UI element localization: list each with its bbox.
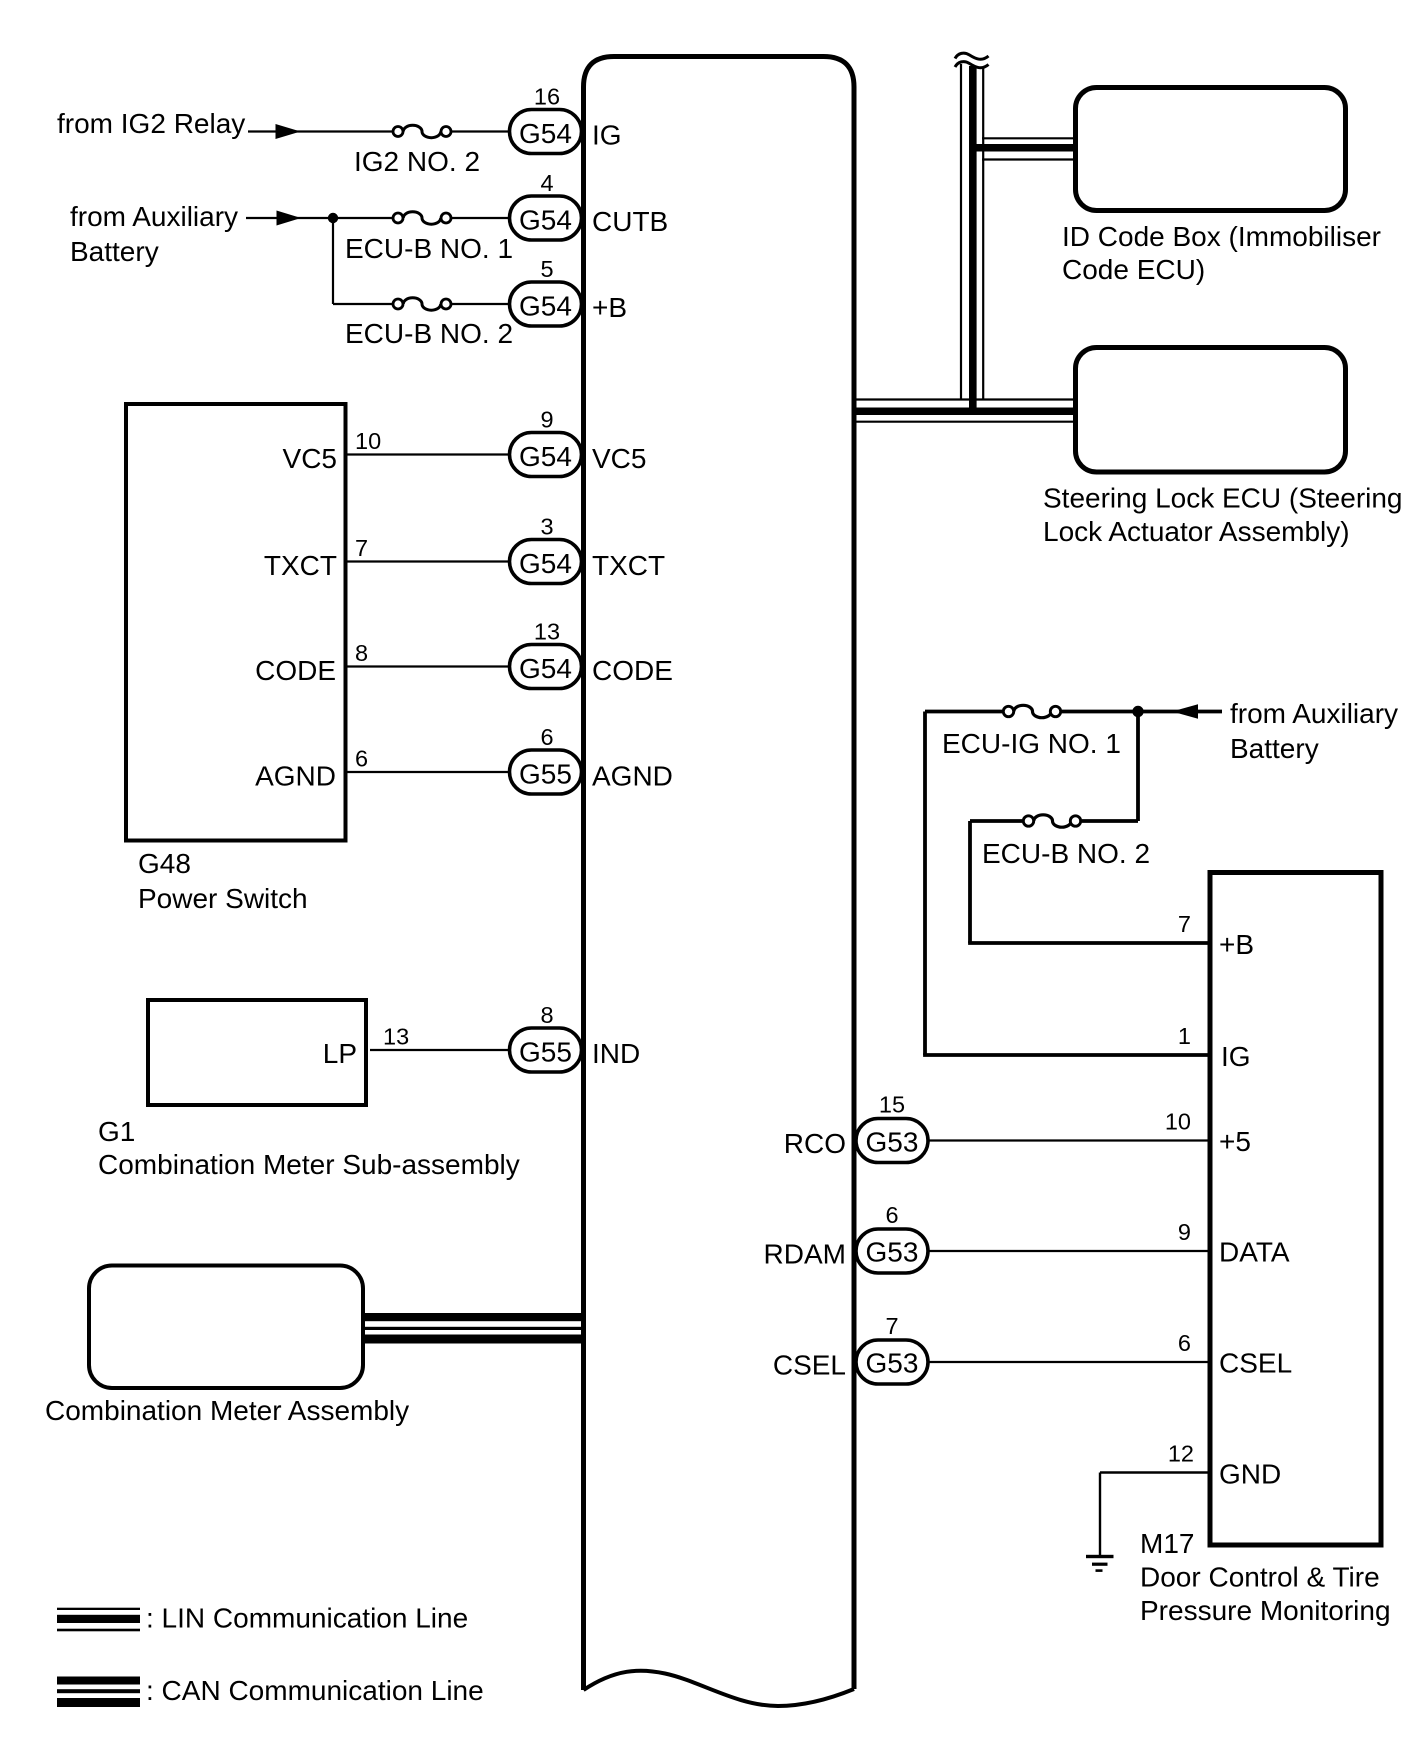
svg-text:: LIN Communication Line: : LIN Communication Line — [146, 1603, 468, 1634]
svg-text:AGND: AGND — [592, 761, 673, 792]
svg-text:1: 1 — [1178, 1023, 1191, 1049]
svg-text:9: 9 — [540, 407, 553, 433]
svg-text:CODE: CODE — [592, 655, 673, 686]
svg-text:Combination Meter Assembly: Combination Meter Assembly — [45, 1395, 409, 1426]
svg-text:6: 6 — [1178, 1330, 1191, 1356]
svg-text:TXCT: TXCT — [264, 550, 337, 581]
svg-text:GND: GND — [1219, 1459, 1281, 1490]
svg-text:CODE: CODE — [255, 655, 336, 686]
svg-text:ECU-B NO. 2: ECU-B NO. 2 — [982, 838, 1150, 869]
svg-text:Steering Lock ECU (Steering: Steering Lock ECU (Steering — [1043, 483, 1403, 514]
svg-text:13: 13 — [383, 1024, 409, 1050]
svg-text:RDAM: RDAM — [764, 1239, 846, 1270]
svg-text:M17: M17 — [1140, 1528, 1194, 1559]
svg-text:VC5: VC5 — [592, 443, 646, 474]
svg-text:Power Switch: Power Switch — [138, 883, 308, 914]
svg-text:G54: G54 — [519, 441, 572, 472]
svg-text:G54: G54 — [519, 291, 572, 322]
svg-text:TXCT: TXCT — [592, 550, 665, 581]
svg-text:Pressure Monitoring: Pressure Monitoring — [1140, 1595, 1391, 1626]
svg-text:IND: IND — [592, 1038, 640, 1069]
svg-text:from IG2 Relay: from IG2 Relay — [57, 108, 245, 139]
svg-text:+5: +5 — [1219, 1126, 1251, 1157]
svg-text:8: 8 — [355, 640, 368, 666]
svg-text:G55: G55 — [519, 759, 572, 790]
svg-text:6: 6 — [540, 724, 553, 750]
svg-text:CSEL: CSEL — [1219, 1348, 1292, 1379]
svg-text:+B: +B — [592, 292, 627, 323]
svg-text:15: 15 — [879, 1092, 905, 1118]
svg-text:from Auxiliary: from Auxiliary — [1230, 698, 1398, 729]
svg-text:IG2 NO. 2: IG2 NO. 2 — [354, 146, 480, 177]
svg-text:G48: G48 — [138, 848, 191, 879]
svg-text:6: 6 — [885, 1202, 898, 1228]
svg-text:CSEL: CSEL — [773, 1350, 846, 1381]
svg-text:12: 12 — [1168, 1441, 1194, 1467]
svg-text:16: 16 — [534, 84, 560, 110]
svg-text:7: 7 — [885, 1313, 898, 1339]
svg-text:: CAN Communication Line: : CAN Communication Line — [146, 1675, 484, 1706]
svg-text:VC5: VC5 — [283, 443, 337, 474]
svg-text:G53: G53 — [866, 1237, 919, 1268]
svg-text:10: 10 — [1165, 1109, 1191, 1135]
svg-text:ID Code Box (Immobiliser: ID Code Box (Immobiliser — [1062, 221, 1381, 252]
svg-text:IG: IG — [592, 120, 622, 151]
svg-text:ECU-IG NO. 1: ECU-IG NO. 1 — [942, 728, 1121, 759]
svg-text:G1: G1 — [98, 1116, 135, 1147]
svg-text:RCO: RCO — [784, 1128, 846, 1159]
svg-text:6: 6 — [355, 746, 368, 772]
svg-text:ECU-B NO. 1: ECU-B NO. 1 — [345, 233, 513, 264]
svg-text:7: 7 — [355, 535, 368, 561]
svg-text:Battery: Battery — [70, 236, 159, 267]
svg-text:Door Control & Tire: Door Control & Tire — [1140, 1562, 1380, 1593]
svg-text:IG: IG — [1221, 1041, 1251, 1072]
svg-text:9: 9 — [1178, 1219, 1191, 1245]
svg-text:13: 13 — [534, 619, 560, 645]
svg-text:Lock Actuator Assembly): Lock Actuator Assembly) — [1043, 516, 1350, 547]
svg-text:G53: G53 — [866, 1348, 919, 1379]
svg-text:5: 5 — [540, 256, 553, 282]
svg-text:G54: G54 — [519, 653, 572, 684]
svg-text:G54: G54 — [519, 205, 572, 236]
svg-text:from Auxiliary: from Auxiliary — [70, 201, 238, 232]
svg-text:Combination Meter Sub-assembly: Combination Meter Sub-assembly — [98, 1149, 520, 1180]
svg-text:DATA: DATA — [1219, 1237, 1290, 1268]
svg-text:Battery: Battery — [1230, 733, 1319, 764]
svg-text:LP: LP — [323, 1038, 357, 1069]
svg-text:10: 10 — [355, 428, 381, 454]
svg-text:Code ECU): Code ECU) — [1062, 254, 1205, 285]
svg-text:AGND: AGND — [255, 761, 336, 792]
svg-text:7: 7 — [1178, 911, 1191, 937]
svg-text:+B: +B — [1219, 929, 1254, 960]
svg-text:8: 8 — [540, 1002, 553, 1028]
svg-text:4: 4 — [540, 170, 553, 196]
svg-text:G53: G53 — [866, 1127, 919, 1158]
svg-text:G54: G54 — [519, 118, 572, 149]
svg-text:G55: G55 — [519, 1037, 572, 1068]
svg-text:G54: G54 — [519, 548, 572, 579]
svg-text:3: 3 — [540, 514, 553, 540]
svg-text:CUTB: CUTB — [592, 206, 668, 237]
svg-text:ECU-B NO. 2: ECU-B NO. 2 — [345, 318, 513, 349]
